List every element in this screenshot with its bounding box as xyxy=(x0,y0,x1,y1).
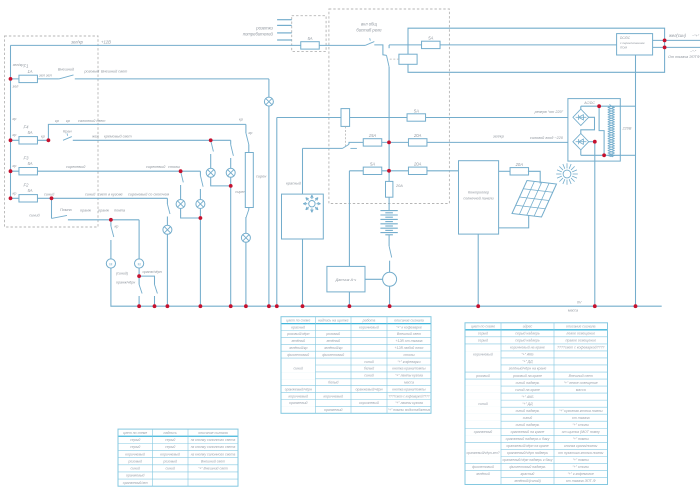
label siren wire xyxy=(235,190,246,194)
wire meter to ground bus xyxy=(389,286,391,306)
dashed enclosure: power distribution box xyxy=(329,9,450,204)
wire D1 out to D2 in xyxy=(581,117,595,133)
label crane cream light xyxy=(63,129,132,138)
wire to cream lamp 2 xyxy=(230,158,232,168)
svg-text:+12В любой плюс: +12В любой плюс xyxy=(395,346,424,350)
svg-text:оранжевый на кране: оранжевый на кране xyxy=(511,430,545,434)
svg-text:220В: 220В xyxy=(622,127,632,131)
wire external light run xyxy=(75,78,269,80)
svg-text:вкл общ: вкл общ xyxy=(361,22,377,27)
wire to cabin lamp xyxy=(245,217,247,233)
svg-text:описание сигнала: описание сигнала xyxy=(566,325,596,329)
labels body light xyxy=(13,192,170,197)
svg-text:коричневый: коричневый xyxy=(160,452,180,456)
svg-text:“+” кофеварки: “+” кофеварки xyxy=(397,360,420,364)
wire cream light run xyxy=(73,139,231,141)
wire transformer bottom external xyxy=(620,154,635,156)
fuse 5A reserve xyxy=(407,108,426,121)
svg-text:“+” АКБ: “+” АКБ xyxy=(521,353,534,357)
lamp body light xyxy=(163,225,172,234)
lamp cream 1 xyxy=(206,168,215,177)
relay contact fridge feed xyxy=(303,142,352,148)
svg-text:синий: синий xyxy=(85,192,96,196)
junction node left bus row A xyxy=(9,77,13,81)
label external light xyxy=(58,68,127,74)
svg-text:зелёный: зелёный xyxy=(290,339,305,343)
svg-text:зел/кр: зел/кр xyxy=(12,63,24,67)
wire motor 2 to junction xyxy=(138,268,140,276)
svg-text:Кран: Кран xyxy=(63,129,72,133)
bridge rectifier D1 xyxy=(573,109,589,125)
svg-text:серый: серый xyxy=(165,438,175,442)
svg-text:5А: 5А xyxy=(27,130,32,135)
fuse 15A xyxy=(363,133,382,146)
svg-text:синий: синий xyxy=(523,416,533,420)
svg-text:От тягача ЭПТФ: От тягача ЭПТФ xyxy=(668,55,700,59)
svg-text:помпа: помпа xyxy=(114,209,125,213)
svg-text:кр: кр xyxy=(13,164,17,168)
svg-text:оранжевый/зел: оранжевый/зел xyxy=(123,481,148,485)
svg-text:кр: кр xyxy=(13,117,17,121)
wire solar controller feed xyxy=(349,170,458,172)
svg-text:“+” кузовная кнопка помпы: “+” кузовная кнопка помпы xyxy=(559,409,603,413)
svg-text:кр: кр xyxy=(239,118,243,122)
svg-text:кр: кр xyxy=(249,131,253,135)
svg-text:красный: красный xyxy=(521,472,535,476)
svg-text:серый: серый xyxy=(130,438,140,442)
svg-text:розовый: розовый xyxy=(475,374,490,378)
svg-text:зелёный: зелёный xyxy=(475,472,490,476)
junction bottom rail xyxy=(602,153,606,157)
svg-text:серый: серый xyxy=(478,339,488,343)
wire reserve 220 row xyxy=(277,117,568,119)
wire body light run xyxy=(11,197,168,199)
svg-text:“+” к кофеварке: “+” к кофеварке xyxy=(396,325,422,329)
junction D2 out xyxy=(593,140,597,144)
motor M1 pump xyxy=(106,259,115,268)
svg-text:5А: 5А xyxy=(428,36,433,41)
svg-text:зелёный/кр: зелёный/кр xyxy=(288,346,307,350)
svg-text:оранжевый/чёрн: оранжевый/чёрн xyxy=(355,387,382,391)
svg-text:розовый: розовый xyxy=(325,332,340,336)
relay contact blade xyxy=(387,55,390,67)
battery 12V xyxy=(380,211,397,235)
wire D2 bottom to transformer xyxy=(581,150,621,155)
wire external lamp to ground bus xyxy=(268,106,270,306)
wire DC/DC bottom to ground bus xyxy=(635,55,637,306)
svg-text:20А: 20А xyxy=(515,162,524,167)
svg-text:F1: F1 xyxy=(24,64,29,69)
junction reserve column / ground bus xyxy=(275,304,279,308)
svg-text:розовый: розовый xyxy=(162,459,177,463)
wire fridge to ground bus xyxy=(302,239,304,306)
svg-text:фиолетовый: фиолетовый xyxy=(287,353,309,357)
svg-text:синий: синий xyxy=(130,467,140,471)
switch motor2 a to ground xyxy=(139,276,142,306)
transformer winding 220V xyxy=(608,104,615,157)
wire table lamps join xyxy=(181,209,201,219)
fuse 5A DC/DC feed xyxy=(422,36,441,49)
svg-text:столы: столы xyxy=(403,353,414,357)
wire battery to switch xyxy=(388,235,390,246)
svg-text:адрес: адрес xyxy=(523,325,533,329)
relay fixed contact stub xyxy=(350,147,357,149)
wire relay contact to DC/DC input xyxy=(389,45,616,48)
wire to table lamp 2 xyxy=(199,189,201,200)
svg-text:Контроллер: Контроллер xyxy=(468,191,489,195)
wire cabin lamp to ground bus xyxy=(245,242,247,306)
junction motor 2 switches xyxy=(137,274,141,278)
svg-text:оранжевый: оранжевый xyxy=(126,474,145,478)
junction table lamps to ground xyxy=(199,216,203,220)
svg-text:нз кнопку салонного света: нз кнопку салонного света xyxy=(191,445,236,449)
label 220V xyxy=(622,127,632,131)
svg-text:описание сигнала: описание сигнала xyxy=(394,318,424,322)
wire fuse to solar panel xyxy=(528,171,540,183)
svg-text:Помпа: Помпа xyxy=(60,208,72,212)
table wire list main xyxy=(281,317,431,414)
svg-text:20А: 20А xyxy=(413,133,422,138)
svg-text:оранж/чёрн: оранж/чёрн xyxy=(116,281,135,285)
svg-text:~”-”: ~”-” xyxy=(690,50,697,54)
svg-text:1А: 1А xyxy=(27,69,32,74)
svg-text:масса: масса xyxy=(568,309,578,313)
svg-text:розовый на кране: розовый на кране xyxy=(512,374,542,378)
svg-text:жел: жел xyxy=(91,135,100,139)
svg-text:синий надверь: синий надверь xyxy=(516,423,540,427)
svg-text:левое освещение: левое освещение xyxy=(565,332,595,336)
switch external light xyxy=(59,75,74,79)
svg-text:от тягача ЭПТ-Ф: от тягача ЭПТ-Ф xyxy=(566,479,596,483)
wire Ah sensor feed xyxy=(348,171,350,267)
motor M2 crane xyxy=(135,259,144,268)
junction DC/DC column / ground bus xyxy=(634,304,638,308)
lamp table 2 xyxy=(196,200,205,209)
svg-text:“+” столы: “+” столы xyxy=(573,465,590,469)
converter DC/DC with switching xyxy=(617,34,653,55)
svg-text:кремовый свет: кремовый свет xyxy=(104,135,132,139)
svg-text:“+” помпы: “+” помпы xyxy=(573,458,590,462)
labels cabin red xyxy=(239,118,252,136)
svg-text:5А: 5А xyxy=(27,188,32,193)
refrigerator box xyxy=(282,194,324,239)
consumer socket stub wires xyxy=(277,20,292,40)
mechanical link relay xyxy=(390,58,399,60)
svg-text:надпись на щитке: надпись на щитке xyxy=(318,318,349,322)
svg-text:описание сигнала: описание сигнала xyxy=(198,431,228,435)
svg-text:кр: кр xyxy=(13,133,17,137)
fuse F4 5A xyxy=(19,125,38,145)
fuse F3 5A xyxy=(19,156,38,175)
wire down to external lamp xyxy=(268,79,270,97)
wire controller to ground bus xyxy=(477,234,479,306)
wire fuse F4 input xyxy=(11,139,49,141)
svg-text:зел зел: зел зел xyxy=(38,74,53,78)
svg-text:надпись: надпись xyxy=(164,431,177,435)
label cabin light xyxy=(55,119,105,123)
wire Ah sensor to ground bus xyxy=(348,292,350,306)
svg-text:+12В от тягача: +12В от тягача xyxy=(396,339,423,343)
controller solar panel xyxy=(459,161,499,234)
svg-text:“+” Внешний свет: “+” Внешний свет xyxy=(198,467,228,471)
svg-text:оранжевый: оранжевый xyxy=(324,408,343,412)
lamp external light xyxy=(264,97,273,106)
wire pump branch down xyxy=(51,198,53,218)
svg-text:розетки: розетки xyxy=(255,26,273,31)
svg-text:кнопка крана/помпы: кнопка крана/помпы xyxy=(392,387,426,391)
switch table lamp 2 xyxy=(200,176,203,187)
svg-text:от тягача: от тягача xyxy=(572,416,590,420)
svg-text:кр: кр xyxy=(66,119,70,123)
svg-text:серый: серый xyxy=(130,445,140,449)
wire Ah sensor to meter xyxy=(365,278,383,280)
wire reserve column to ground xyxy=(276,118,278,307)
wire to cream lamp 1 xyxy=(210,154,212,168)
svg-text:фиолетовый надверь: фиолетовый надверь xyxy=(509,465,545,469)
junction fridge / ground bus xyxy=(301,304,305,308)
switch body lamp xyxy=(167,204,170,214)
svg-text:силовой вход ~220: силовой вход ~220 xyxy=(530,136,564,140)
svg-text:М: М xyxy=(109,262,112,266)
wire left vertical bus xyxy=(10,45,12,198)
svg-text:белый: белый xyxy=(364,367,374,371)
svg-text:Внешний: Внешний xyxy=(58,68,75,72)
svg-text:“+” лампы кузова: “+” лампы кузова xyxy=(395,374,423,378)
svg-text:5А: 5А xyxy=(370,162,375,167)
fuse 5A solar row xyxy=(363,162,382,175)
wire body lamp to ground bus xyxy=(166,234,168,306)
labels red wire row B xyxy=(13,117,45,139)
wire cabin light branch xyxy=(48,124,246,140)
svg-text:серый: серый xyxy=(165,445,175,449)
wire ground bus xyxy=(111,268,662,306)
svg-text:сиреневый: сиреневый xyxy=(146,165,166,169)
switch table lamp 1 xyxy=(181,171,184,182)
junction battery bus / solar row xyxy=(387,169,391,173)
wire cream lamps join xyxy=(211,177,231,186)
junction cream lamp 1 xyxy=(209,138,213,142)
svg-text:оранжевый: оранжевый xyxy=(474,430,493,434)
junction body lamp / ground bus xyxy=(166,304,170,308)
svg-text:оранжевый/чёрн надверь к баку: оранжевый/чёрн надверь к баку xyxy=(503,458,553,462)
svg-text:“+” АКБ: “+” АКБ xyxy=(521,395,534,399)
label mains input 220 xyxy=(492,134,564,140)
net label +12V xyxy=(70,40,111,45)
svg-text:синий: синий xyxy=(44,192,55,196)
label pump switch xyxy=(29,208,71,218)
svg-text:красный: красный xyxy=(286,182,302,186)
junction D1 top xyxy=(597,104,601,108)
junction controller / ground bus xyxy=(476,304,480,308)
wire D1 top to bottom rail xyxy=(599,106,604,155)
switch master on/off xyxy=(365,38,374,45)
svg-text:салонный свет: салонный свет xyxy=(78,119,105,123)
svg-text:DC/DC: DC/DC xyxy=(620,36,631,40)
label dimmer siren xyxy=(256,175,267,179)
svg-text:Внешний свет: Внешний свет xyxy=(201,459,225,463)
svg-text:оранжевый/чёрн: оранжевый/чёрн xyxy=(285,387,312,391)
svg-text:5А: 5А xyxy=(414,108,419,113)
svg-text:F3: F3 xyxy=(24,156,30,161)
label reserve from 220 xyxy=(534,110,564,114)
wire body lamp corner xyxy=(166,198,168,204)
wire fuse to battery xyxy=(388,197,390,210)
svg-text:синий: синий xyxy=(293,367,303,371)
label master bistable relay switch xyxy=(356,22,382,33)
svg-text:15А: 15А xyxy=(369,133,377,138)
svg-text:розовый/чёрн: розовый/чёрн xyxy=(286,332,309,336)
wire mains input row xyxy=(351,141,568,143)
wire tables run xyxy=(11,170,201,172)
svg-text:кр: кр xyxy=(115,225,119,229)
wire DC/DC out+ to trailer xyxy=(653,39,700,41)
wire corner table lamp 2 xyxy=(199,171,201,175)
svg-text:жел(син): жел(син) xyxy=(668,33,687,38)
svg-text:серый надверь: серый надверь xyxy=(515,332,540,336)
svg-text:оранж/чёрн: оранж/чёрн xyxy=(143,270,162,274)
wire fuse F1 input xyxy=(11,78,59,80)
svg-text:коричневый: коричневый xyxy=(125,452,145,456)
svg-text:зел: зел xyxy=(12,85,20,89)
solar panel xyxy=(512,181,557,218)
junction pump branch xyxy=(50,196,54,200)
wire corner cream lamp 2 xyxy=(230,140,232,144)
junction node left bus row C xyxy=(9,169,13,173)
junction motor 1 branch xyxy=(109,218,113,222)
svg-text:коричневый на кране: коричневый на кране xyxy=(510,346,545,350)
fuse 20A solar row xyxy=(408,162,427,175)
dashed enclosure: cab control panel xyxy=(5,36,99,227)
svg-text:зелёный/чёрн на кране: зелёный/чёрн на кране xyxy=(508,367,547,371)
wire D2 out to ground bus xyxy=(594,142,596,307)
svg-text:серый надверь: серый надверь xyxy=(515,339,540,343)
junction tables column / ground bus xyxy=(199,304,203,308)
svg-text:????свет с кофеваркой????: ????свет с кофеваркой???? xyxy=(389,394,430,398)
svg-text:“+” левое освещение: “+” левое освещение xyxy=(564,381,598,385)
svg-text:“+” помпы: “+” помпы xyxy=(573,437,590,441)
wire to body lamp xyxy=(166,217,168,226)
junction cabin lamp / ground bus xyxy=(244,304,248,308)
switch cream lamp 2 xyxy=(231,145,234,156)
wire DC/DC out- to trailer xyxy=(653,46,700,48)
junction cream lamps to ground xyxy=(229,184,233,188)
svg-text:кр: кр xyxy=(55,119,59,123)
fuse F2 5A xyxy=(19,183,38,203)
svg-text:оранжевый/чёрн-зел?: оранжевый/чёрн-зел? xyxy=(467,451,500,455)
svg-text:зелёный/(синий): зелёный/(синий) xyxy=(513,479,541,483)
svg-text:синий: синий xyxy=(364,374,374,378)
svg-text:оранжевый: оранжевый xyxy=(289,401,308,405)
svg-text:коричневый: коричневый xyxy=(323,394,343,398)
svg-text:бистаб реле: бистаб реле xyxy=(356,28,382,33)
svg-text:“+” ДД: “+” ДД xyxy=(522,360,533,364)
label motor1 red xyxy=(115,225,119,229)
svg-text:коричневый: коричневый xyxy=(359,401,379,405)
svg-text:Внешний свет: Внешний свет xyxy=(569,374,593,378)
fuse 20A battery vertical xyxy=(386,181,404,197)
lamp cream 2 xyxy=(226,168,235,177)
svg-text:сиреневый: сиреневый xyxy=(66,165,86,169)
svg-text:зел/кр: зел/кр xyxy=(70,40,84,45)
svg-text:красный: красный xyxy=(291,325,305,329)
svg-text:синий надверь: синий надверь xyxy=(516,409,540,413)
switch+wire motor 1 xyxy=(111,220,114,259)
svg-text:резерв “от 220”: резерв “от 220” xyxy=(534,110,564,114)
switch cabin light xyxy=(246,133,249,145)
relay coil K1 xyxy=(399,54,417,64)
svg-text:оранжевый/чёрн на кране: оранжевый/чёрн на кране xyxy=(506,444,548,448)
junction relay loop / DC/DC out+ xyxy=(663,39,667,43)
svg-text:коричневый: коричневый xyxy=(359,325,379,329)
svg-text:синий: синий xyxy=(364,360,374,364)
svg-text:от щитка (МОТ помпу: от щитка (МОТ помпу xyxy=(562,430,600,434)
junction node left bus row B xyxy=(9,138,13,142)
svg-text:зелёный/кр: зелёный/кр xyxy=(323,346,342,350)
svg-text:“+” лампы кузова: “+” лампы кузова xyxy=(395,401,423,405)
svg-text:~”+”: ~”+” xyxy=(692,34,700,38)
junction meter / ground bus xyxy=(388,304,392,308)
svg-text:работа: работа xyxy=(362,318,376,322)
svg-text:“+” к кофемолке: “+” к кофемолке xyxy=(568,472,594,476)
svg-text:кнопка крана/помпы: кнопка крана/помпы xyxy=(564,444,598,448)
table wire list cab xyxy=(118,429,238,486)
svg-text:нз кнопку салонного света: нз кнопку салонного света xyxy=(191,452,236,456)
junction crane branch xyxy=(47,138,51,142)
svg-text:фиолетовый: фиолетовый xyxy=(322,353,344,357)
bridge rectifier D2 xyxy=(573,134,589,150)
switch pump xyxy=(52,215,68,218)
svg-text:коричневый: коричневый xyxy=(473,353,493,357)
svg-text:+12В: +12В xyxy=(101,40,111,45)
svg-text:серый: серый xyxy=(478,332,488,336)
svg-text:Внешний свет: Внешний свет xyxy=(397,332,421,336)
svg-text:свет в кузове: свет в кузове xyxy=(98,192,123,196)
wire controller to panel fuse xyxy=(499,170,511,172)
svg-text:цвет по схеме: цвет по схеме xyxy=(471,325,495,329)
wire panel return to controller xyxy=(499,216,529,228)
svg-text:AC/DC: AC/DC xyxy=(583,101,595,105)
svg-text:нз кнопку салонного света: нз кнопку салонного света xyxy=(191,438,236,442)
svg-text:20А: 20А xyxy=(395,184,403,188)
svg-text:“+” столы: “+” столы xyxy=(573,423,590,427)
dashed enclosure: consumer sockets box xyxy=(292,16,326,52)
svg-text:сирен: сирен xyxy=(256,175,267,179)
svg-text:Датчик А·ч: Датчик А·ч xyxy=(335,278,357,282)
svg-text:солнечной панели: солнечной панели xyxy=(463,197,493,201)
switch motor2 b to ground xyxy=(139,276,157,306)
fuse 5A sockets xyxy=(301,36,320,49)
labels green wire xyxy=(12,63,53,89)
svg-text:цвет по схеме: цвет по схеме xyxy=(123,431,147,435)
svg-text:синий: синий xyxy=(165,467,175,471)
svg-text:“+” ДД: “+” ДД xyxy=(522,402,533,406)
wire switch to meter xyxy=(389,261,391,273)
wire motor 2 feed xyxy=(138,220,140,259)
label ground 0V massa xyxy=(568,300,582,312)
wire D1 top to transformer xyxy=(581,106,621,109)
junction rectifier / ground bus xyxy=(593,304,597,308)
svg-text:фиолетовый: фиолетовый xyxy=(472,465,494,469)
wire cream lamps to ground bus xyxy=(230,186,232,306)
svg-text:5А: 5А xyxy=(27,161,32,166)
fuse F1 1A xyxy=(19,64,38,83)
rectifier AC/DC box xyxy=(568,99,620,162)
svg-text:масса: масса xyxy=(404,380,414,384)
svg-text:синий: синий xyxy=(478,402,488,406)
labels tables lilac xyxy=(13,164,181,169)
svg-text:0V: 0V xyxy=(577,300,582,304)
fuse 20A mains xyxy=(408,133,427,146)
